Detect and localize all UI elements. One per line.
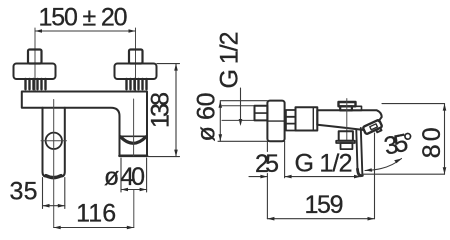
svg-text:159: 159 — [305, 191, 344, 219]
svg-text:138: 138 — [147, 92, 175, 128]
svg-text:150 ± 20: 150 ± 20 — [39, 4, 128, 32]
svg-text:25: 25 — [255, 150, 279, 178]
svg-text:G 1/2: G 1/2 — [216, 32, 244, 89]
svg-text:G 1/2: G 1/2 — [295, 150, 353, 178]
svg-text:116: 116 — [76, 200, 116, 228]
svg-text:ø 40: ø 40 — [104, 163, 145, 191]
svg-text:35°: 35° — [382, 127, 417, 160]
svg-text:ø 60: ø 60 — [193, 93, 221, 142]
svg-text:35: 35 — [10, 177, 38, 205]
